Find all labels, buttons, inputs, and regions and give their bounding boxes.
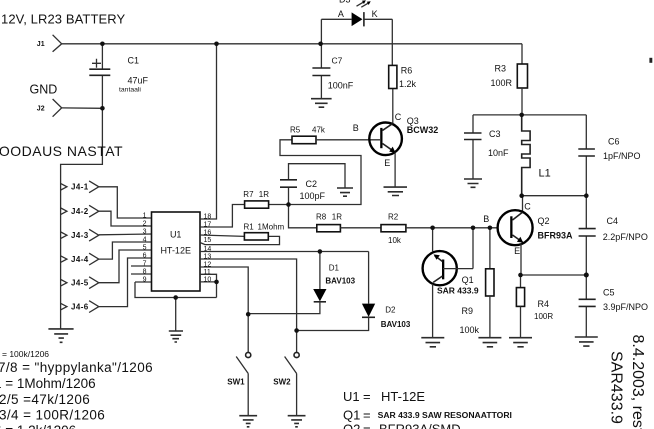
svg-text:U1: U1 — [343, 389, 360, 404]
svg-text:C6: C6 — [608, 136, 620, 146]
svg-text:10nF: 10nF — [488, 148, 509, 158]
svg-text:100R: 100R — [534, 312, 553, 321]
svg-text:B: B — [483, 214, 489, 224]
svg-text:D2: D2 — [385, 305, 396, 314]
svg-text:L1: L1 — [539, 168, 551, 180]
svg-text:10k: 10k — [388, 236, 402, 245]
svg-text:A: A — [338, 9, 344, 19]
svg-text:BAV103: BAV103 — [325, 277, 355, 286]
svg-text:R6: R6 — [401, 66, 413, 76]
svg-text:R9: R9 — [462, 306, 474, 316]
svg-text:J4-4: J4-4 — [71, 255, 89, 264]
svg-text:HT-12E: HT-12E — [381, 389, 425, 404]
svg-text:4: 4 — [143, 237, 147, 244]
svg-text:6 = 1.2k/1206: 6 = 1.2k/1206 — [0, 423, 76, 429]
svg-text:KOODAUS NASTAT: KOODAUS NASTAT — [0, 143, 123, 159]
svg-text:B: B — [353, 123, 359, 133]
svg-text:SW2: SW2 — [273, 378, 291, 387]
svg-text:1R: 1R — [259, 190, 269, 199]
svg-text:U1: U1 — [170, 230, 182, 240]
svg-text:J1: J1 — [37, 41, 45, 48]
svg-text:R4: R4 — [538, 299, 550, 309]
svg-text:1Mohm: 1Mohm — [258, 223, 285, 232]
svg-text:2/5 =47k/1206: 2/5 =47k/1206 — [0, 392, 90, 407]
svg-text:7: 7 — [143, 261, 147, 268]
svg-text:Q1: Q1 — [343, 408, 360, 423]
svg-text:C5: C5 — [603, 288, 615, 298]
svg-text:18: 18 — [204, 214, 212, 221]
svg-text:7/8 = "hyppylanka"/1206: 7/8 = "hyppylanka"/1206 — [0, 360, 153, 375]
svg-text:BCW32: BCW32 — [407, 125, 439, 135]
svg-text:12V, LR23 BATTERY: 12V, LR23 BATTERY — [1, 12, 126, 27]
svg-text:SAR 433.9 SAW RESONAATTORI: SAR 433.9 SAW RESONAATTORI — [378, 410, 512, 420]
svg-text:16: 16 — [204, 230, 212, 237]
svg-text:SW1: SW1 — [227, 378, 245, 387]
svg-text:100k: 100k — [460, 325, 480, 335]
svg-text:5: 5 — [143, 245, 147, 252]
svg-text:= 100k/1206: = 100k/1206 — [2, 349, 49, 359]
svg-text:C4: C4 — [607, 216, 619, 226]
svg-text:E: E — [514, 246, 520, 256]
svg-text:C7: C7 — [332, 55, 343, 65]
svg-text:100nF: 100nF — [328, 81, 354, 91]
svg-text:=: = — [363, 389, 371, 404]
svg-text:R1: R1 — [244, 223, 255, 232]
svg-text:2: 2 — [143, 221, 147, 228]
svg-text:10: 10 — [204, 276, 212, 283]
svg-text:100R: 100R — [491, 78, 513, 88]
svg-text:BAV103: BAV103 — [381, 320, 411, 329]
svg-text:J4-6: J4-6 — [71, 302, 89, 311]
svg-text:12: 12 — [204, 262, 212, 269]
svg-text:C2: C2 — [306, 179, 318, 189]
svg-text:Q2: Q2 — [343, 422, 360, 429]
svg-text:C: C — [395, 112, 402, 122]
svg-text:R5: R5 — [290, 126, 301, 135]
svg-text:C3: C3 — [489, 129, 501, 139]
svg-text:100pF: 100pF — [300, 191, 326, 201]
svg-text:GND: GND — [30, 83, 58, 97]
svg-text:E: E — [384, 158, 390, 168]
svg-text:14: 14 — [204, 246, 212, 253]
svg-text:R8: R8 — [316, 213, 327, 222]
svg-text:47uF: 47uF — [128, 75, 149, 85]
svg-text:3/4 = 100R/1206: 3/4 = 100R/1206 — [0, 408, 105, 423]
svg-text:8.4.2003, rest: 8.4.2003, rest — [629, 335, 646, 429]
svg-text:2.2pF/NPO: 2.2pF/NPO — [603, 232, 648, 242]
svg-text:BFR93A: BFR93A — [538, 231, 574, 241]
svg-text:1pF/NPO: 1pF/NPO — [603, 151, 641, 161]
svg-text:R3: R3 — [495, 64, 507, 74]
svg-text:J4-1: J4-1 — [71, 183, 89, 192]
svg-text:1.2k: 1.2k — [399, 79, 417, 89]
svg-text:17: 17 — [204, 222, 212, 229]
svg-text:J4-2: J4-2 — [71, 207, 89, 216]
svg-text:1R: 1R — [332, 213, 342, 222]
svg-text:6: 6 — [143, 253, 147, 260]
svg-text:tantaali: tantaali — [119, 87, 141, 94]
svg-text:15: 15 — [204, 237, 212, 244]
svg-text:1 = 1Mohm/1206: 1 = 1Mohm/1206 — [0, 376, 96, 391]
svg-text:D3: D3 — [339, 0, 351, 5]
svg-text:C1: C1 — [128, 55, 140, 65]
svg-text:J4-5: J4-5 — [71, 279, 89, 288]
svg-text:J2: J2 — [37, 106, 45, 113]
svg-text:1: 1 — [143, 213, 147, 220]
svg-text:R2: R2 — [388, 213, 399, 222]
svg-text:BFR93A/SMD: BFR93A/SMD — [379, 422, 461, 429]
svg-text:Q1: Q1 — [462, 275, 474, 285]
svg-text:=: = — [363, 408, 371, 423]
svg-text:K: K — [372, 9, 378, 19]
svg-text:13: 13 — [204, 254, 212, 261]
svg-text:J4-3: J4-3 — [71, 231, 89, 240]
svg-text:9: 9 — [143, 277, 147, 284]
svg-text:C: C — [524, 202, 531, 212]
svg-text:D1: D1 — [329, 263, 340, 272]
svg-text:Q2: Q2 — [538, 216, 550, 226]
svg-text:=: = — [363, 422, 371, 429]
svg-text:SAR 433.9: SAR 433.9 — [437, 286, 479, 296]
svg-text:47k: 47k — [312, 126, 326, 135]
svg-text:8: 8 — [143, 269, 147, 276]
svg-text:HT-12E: HT-12E — [160, 245, 191, 255]
svg-text:3: 3 — [143, 229, 147, 236]
svg-text:SAR433.9: SAR433.9 — [608, 351, 625, 424]
svg-text:11: 11 — [204, 269, 211, 276]
svg-text:3.9pF/NPO: 3.9pF/NPO — [603, 302, 648, 312]
svg-text:R7: R7 — [243, 190, 254, 199]
